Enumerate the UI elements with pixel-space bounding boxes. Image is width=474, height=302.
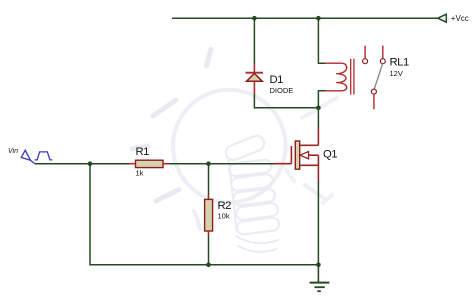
wire R1 to Q1 gate node	[169, 163, 274, 165]
wire bottom rail to ground node	[209, 264, 319, 266]
resistor R2	[205, 195, 213, 236]
transistor Q1	[291, 127, 318, 181]
svg-text:D1: D1	[270, 74, 284, 86]
wire Vcc rail down to relay coil	[318, 18, 325, 63]
wire Q1 gate pin	[274, 163, 291, 165]
wire input node down and along bottom rail	[90, 164, 209, 265]
wire relay coil to drain node	[318, 91, 325, 108]
wire R2 to bottom rail	[208, 235, 210, 264]
junction Vcc rail / D1	[252, 16, 257, 21]
relay RL1 common pin	[371, 89, 376, 109]
wire gate node to R2	[208, 164, 210, 195]
svg-text:RL1: RL1	[390, 56, 409, 68]
relay RL1 core bars	[351, 59, 354, 95]
svg-text:12V: 12V	[390, 69, 403, 78]
pulse waveform glyph	[35, 152, 53, 160]
wire Q1 source to ground rail	[317, 181, 319, 265]
watermark light-bulb logo	[132, 49, 337, 252]
svg-text:10k: 10k	[218, 211, 230, 220]
svg-text:Vin: Vin	[8, 148, 18, 155]
svg-text:1k: 1k	[136, 168, 144, 177]
ground	[310, 265, 330, 291]
junction bottom rail / R2 bottom	[206, 263, 211, 268]
terminal +Vcc	[438, 14, 447, 22]
svg-text:R2: R2	[218, 200, 232, 212]
junction gate node / R2 top	[206, 161, 211, 166]
relay RL1 switch contact pin 2	[380, 46, 385, 64]
junction Vcc rail / relay coil	[316, 16, 321, 21]
svg-text:+Vcc: +Vcc	[451, 14, 469, 23]
wire +Vcc top rail	[172, 17, 438, 19]
junction drain node	[316, 106, 321, 111]
relay RL1 coil	[325, 63, 347, 91]
terminal Vin input	[21, 150, 35, 164]
junction bottom rail / ground	[316, 263, 321, 268]
relay RL1 movable arm	[374, 64, 382, 89]
svg-text:Q1: Q1	[323, 148, 337, 160]
wire D1 anode to drain node	[254, 94, 318, 108]
relay RL1 switch contact pin 1	[363, 46, 368, 64]
junction input node	[88, 161, 93, 166]
wire drain node to Q1 drain	[317, 108, 319, 128]
resistor R1	[129, 160, 170, 167]
wire Vcc rail to D1 cathode	[253, 18, 255, 64]
wire Vin to R1	[35, 163, 129, 165]
diode D1	[246, 64, 264, 95]
svg-text:R1: R1	[136, 146, 150, 158]
svg-text:DIODE: DIODE	[270, 86, 294, 95]
